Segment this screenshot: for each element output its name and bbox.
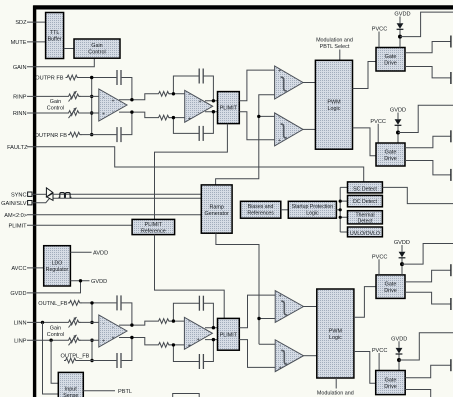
wire GVDD1 branch to right: [400, 12, 453, 36]
wire SC Detect output right: [382, 187, 453, 203]
svg-text:Generator: Generator: [205, 211, 229, 217]
svg-text:Startup Protection: Startup Protection: [292, 204, 334, 210]
wire PBTL: [83, 390, 115, 392]
svg-text:Biases and: Biases and: [248, 204, 274, 210]
svg-text:SYNC: SYNC: [11, 192, 27, 198]
wire C4b feedback: [173, 340, 213, 362]
svg-text:Modulation and: Modulation and: [317, 391, 354, 397]
FET gate bar (GD4 upper): [450, 359, 452, 371]
svg-text:+: +: [111, 336, 114, 342]
pin PLIMIT: [8, 224, 132, 230]
svg-text:Gate: Gate: [385, 54, 397, 60]
svg-text:SC Detect: SC Detect: [353, 187, 377, 193]
diode D4 GVDD: [396, 341, 403, 370]
wire OUTPL_FB row: [77, 338, 132, 361]
op-amp A1: [99, 89, 127, 121]
Gain Control block: [74, 39, 120, 58]
wire GAIN/SLV to ramp generator: [32, 198, 201, 202]
svg-text:RINN: RINN: [13, 111, 27, 117]
svg-text:AVCC: AVCC: [11, 266, 26, 272]
svg-text:AVDD: AVDD: [93, 251, 108, 257]
svg-text:+: +: [197, 337, 200, 343]
svg-text:GAIN/SLV: GAIN/SLV: [1, 201, 27, 207]
pin AVCC: [11, 266, 43, 272]
wire C2b feedback: [173, 112, 213, 134]
wire LINP to Input Sense: [51, 340, 58, 383]
svg-text:-: -: [279, 343, 281, 349]
svg-text:Drive: Drive: [384, 384, 397, 390]
wire GD4 lower output: [405, 390, 431, 397]
svg-text:-: -: [279, 93, 281, 99]
svg-text:+: +: [188, 343, 191, 349]
svg-text:LINP: LINP: [14, 338, 27, 344]
PLIMIT block (right channel): [218, 92, 240, 124]
capacitor C1a: [117, 70, 121, 85]
svg-text:PWM: PWM: [327, 100, 341, 106]
PWM Logic block (left channel): [317, 289, 354, 378]
wire label to PWM logic: [339, 50, 341, 61]
wire GD2 lower output: [405, 161, 450, 175]
svg-text:PLIMIT: PLIMIT: [220, 332, 238, 338]
svg-text:PVCC: PVCC: [372, 254, 388, 260]
variable resistor LINP: [67, 335, 80, 346]
resistor R4b: [157, 343, 171, 348]
Ramp Generator block: [201, 185, 232, 233]
wire GD2 upper output: [405, 136, 450, 147]
svg-text:Ramp: Ramp: [210, 204, 224, 210]
wire GD3 upper output: [405, 270, 450, 282]
svg-text:Thermal: Thermal: [355, 212, 374, 218]
junction dot GVDD4: [397, 358, 401, 362]
svg-text:+: +: [102, 339, 105, 345]
svg-text:GVDD: GVDD: [91, 279, 107, 285]
wire RINP to op-amp: [79, 95, 100, 97]
svg-text:Reference: Reference: [141, 229, 166, 235]
op-amp A2: [185, 90, 213, 122]
UVLO/OVLO block: [348, 227, 383, 237]
wire GD1 upper output: [405, 42, 450, 53]
pin GAIN: [13, 58, 94, 71]
svg-text:Sense: Sense: [63, 393, 78, 397]
junction dot GVDD1: [398, 35, 402, 39]
svg-text:+: +: [278, 138, 281, 144]
pin LINN: [14, 321, 67, 327]
resistor OUTPL_FB: [64, 358, 77, 363]
FET gate bar (GD1 upper): [450, 36, 452, 48]
wire PVCC2: [377, 124, 379, 143]
Gate Drive 1 block: [376, 48, 405, 72]
svg-text:Gate: Gate: [385, 377, 397, 383]
PLIMIT block (left channel): [218, 318, 240, 350]
wire PVCC1: [378, 32, 380, 48]
detect bus vertical: [340, 187, 347, 232]
svg-text:-: -: [103, 321, 105, 327]
wire LINN to Input Sense: [43, 322, 59, 394]
Gate Drive 2 block: [376, 143, 405, 166]
svg-text:Detect: Detect: [358, 218, 374, 224]
wire PVCC4: [378, 353, 380, 371]
svg-text:+: +: [279, 366, 282, 372]
op-amp A4: [184, 317, 212, 349]
wire A3 lower output: [119, 338, 157, 345]
wire A1 lower output: [119, 112, 157, 118]
svg-text:GVDD: GVDD: [10, 291, 26, 297]
svg-text:Control: Control: [88, 50, 105, 56]
svg-text:Modulation and: Modulation and: [316, 38, 353, 44]
svg-text:Control: Control: [47, 106, 64, 112]
op-amp A3: [99, 315, 127, 347]
svg-text:Regulator: Regulator: [46, 267, 69, 273]
wire PLIMIT2 to comparator CMP3: [239, 295, 276, 328]
junction dot GVDD2: [396, 131, 400, 135]
wire PLIMIT Reference to PLIMIT2: [155, 235, 225, 319]
Gate Drive 4 block: [376, 371, 406, 395]
svg-text:AM<2:0>: AM<2:0>: [4, 213, 27, 219]
capacitor C1b: [117, 127, 121, 142]
TTL Buffer U1: [46, 13, 64, 59]
svg-text:-: -: [199, 326, 201, 332]
wire PWM2 label: [335, 378, 337, 389]
svg-text:Buffer: Buffer: [47, 37, 61, 43]
junction dot LINP branch: [49, 339, 52, 342]
junction dot ramp comp3: [257, 317, 260, 320]
PLIMIT Reference block: [132, 219, 175, 234]
svg-text:PLIMIT: PLIMIT: [220, 106, 238, 112]
wire PVCC3: [378, 259, 380, 275]
FET gate bar (GD2 upper): [450, 130, 452, 142]
wire AVDD output: [70, 251, 91, 253]
svg-text:Logic: Logic: [328, 106, 341, 112]
wire GVDD3 branch to right: [402, 244, 453, 265]
junction dot ramp comp2: [257, 115, 260, 118]
svg-text:PWM: PWM: [329, 328, 343, 334]
wire PWM2 to Gate Drive 4: [354, 352, 376, 384]
FET gate bar (GD3 upper): [450, 264, 452, 276]
pin GVDD: [10, 281, 80, 297]
wire R2a to A2: [169, 93, 186, 95]
svg-text:-: -: [103, 95, 105, 101]
wire startup logic to detect bus: [336, 209, 340, 211]
variable resistor LINN: [67, 317, 80, 328]
wire RINN to op-amp: [79, 112, 100, 114]
wire biases to startup logic: [281, 209, 289, 211]
wire GVDD4 branch to right: [399, 333, 453, 360]
Biases and References block: [241, 201, 281, 218]
chip outline left border: [33, 6, 36, 397]
svg-text:Drive: Drive: [384, 288, 397, 294]
svg-text:OUTNL_FB: OUTNL_FB: [38, 301, 67, 307]
diode D1 GVDD: [397, 17, 404, 48]
junction dots detect bus: [339, 200, 342, 219]
partial block at bottom edge: [173, 394, 200, 397]
junction dot LINN branch: [41, 321, 44, 324]
diode D3 GVDD: [399, 245, 406, 275]
wire A1 upper output: [119, 94, 157, 100]
svg-text:+: +: [198, 99, 201, 105]
capacitor C4a: [199, 296, 203, 311]
svg-text:+: +: [111, 99, 114, 105]
chip outline top border: [33, 5, 453, 9]
capacitor C2a: [199, 69, 203, 84]
junction dot R4b node: [172, 343, 175, 346]
svg-text:+: +: [279, 293, 282, 299]
svg-text:-: -: [279, 115, 281, 121]
square wave symbol: [59, 193, 72, 198]
svg-text:RINP: RINP: [13, 95, 27, 101]
wire LINP to op-amp: [79, 339, 100, 341]
svg-text:GAIN: GAIN: [13, 65, 27, 71]
svg-text:UVLO/OVLO: UVLO/OVLO: [350, 231, 380, 237]
wire PWM to Gate Drive 1: [353, 62, 377, 89]
svg-text:Gain: Gain: [50, 326, 61, 332]
svg-text:-: -: [189, 92, 191, 98]
pin AM<2:0>: [4, 213, 201, 219]
wire PLIMIT1 to comparator C2: [239, 112, 275, 140]
junction dots A2 outputs: [212, 99, 215, 113]
svg-text:Control: Control: [47, 332, 64, 338]
svg-text:Gate: Gate: [385, 282, 397, 288]
wire GVDD output: [70, 280, 89, 282]
Input Sense block: [58, 372, 83, 397]
svg-text:-: -: [188, 319, 190, 325]
FET gate bar (GD3 lower): [450, 298, 452, 310]
wire C4a feedback: [173, 303, 213, 328]
pin RINP: [13, 95, 67, 101]
svg-text:+: +: [188, 116, 191, 122]
svg-text:-: -: [112, 109, 114, 115]
Gate Drive 3 block: [376, 275, 405, 299]
svg-text:References: References: [247, 211, 274, 217]
comparator CMP1: [275, 66, 303, 99]
svg-text:Drive: Drive: [384, 156, 397, 162]
wire OUTPNR FB row: [81, 112, 132, 135]
wire A2 outputs to PLIMIT: [205, 101, 218, 112]
label Gain Control (left channel): [47, 326, 64, 339]
junction dots A4 outputs: [212, 326, 215, 341]
comparator CMP2: [275, 113, 303, 146]
FET gate bar (GD2 lower): [450, 169, 452, 181]
svg-text:PLIMIT: PLIMIT: [8, 224, 27, 230]
wire A4 outputs to PLIMIT2: [205, 328, 218, 340]
wire C2a feedback: [173, 76, 213, 101]
svg-text:Gain: Gain: [50, 99, 61, 105]
svg-text:OUTPR FB: OUTPR FB: [35, 76, 64, 82]
wire CMP1 to PWM logic: [303, 82, 315, 84]
node column A vertical: [91, 78, 93, 135]
svg-text:Logic: Logic: [306, 211, 319, 217]
pin MUTE: [11, 40, 46, 46]
svg-text:OUTPNR FB: OUTPNR FB: [35, 133, 68, 139]
comparator CMP4: [275, 340, 303, 372]
wire TTL Buffer to Gain Control: [64, 48, 74, 50]
junction dot R4a node: [172, 319, 175, 322]
wire OUTPR FB row: [79, 78, 132, 100]
svg-text:DC Detect: DC Detect: [353, 199, 377, 205]
wire GD3 lower output: [405, 292, 450, 304]
wire OUTNL_FB row: [81, 303, 132, 325]
svg-text:FAULTZ: FAULTZ: [7, 145, 28, 151]
junction dots node column B: [90, 301, 93, 362]
svg-text:Input: Input: [65, 386, 77, 392]
capacitor C3a: [117, 295, 121, 310]
pin SYNC: [11, 192, 46, 198]
wire ramp generator bottom to comparators: [216, 233, 276, 344]
svg-text:TTL: TTL: [50, 30, 60, 36]
svg-text:-: -: [198, 110, 200, 116]
wire R4a to A4: [169, 320, 186, 322]
wire CMP2 to PWM logic: [303, 128, 315, 130]
LDO Regulator block: [44, 246, 71, 286]
svg-text:LINN: LINN: [14, 321, 27, 327]
Startup Protection Logic block: [288, 201, 336, 218]
resistor R2b: [157, 115, 171, 120]
wire SYNC to ramp generator: [53, 193, 201, 195]
junction dot R2b node: [172, 116, 175, 119]
junction dot A3 upper output: [130, 323, 133, 326]
variable resistor RINP: [67, 91, 80, 102]
pin FAULTZ: [7, 145, 28, 151]
svg-text:+: +: [278, 69, 281, 75]
junction dot GVDD3: [400, 262, 404, 266]
junction dot R2a node: [172, 92, 175, 95]
resistor OUTNL_FB: [68, 301, 81, 306]
node column B verticals: [91, 303, 93, 361]
PWM Logic block (right channel): [315, 60, 352, 149]
variable resistor RINN: [67, 108, 80, 119]
svg-text:PLIMIT: PLIMIT: [145, 222, 163, 228]
junction dots node column A: [90, 76, 93, 137]
wire ramp to comp4: [259, 343, 276, 345]
wire PLIMIT1 bottom to PLIMIT Reference: [155, 124, 228, 220]
svg-text:Gate: Gate: [385, 149, 397, 155]
svg-text:LDO: LDO: [52, 260, 63, 266]
diode D2 GVDD: [395, 113, 402, 144]
comparator CMP3: [275, 291, 303, 323]
wire ramp to comparators (upper): [216, 95, 275, 186]
junction dot A1 upper output: [130, 98, 133, 101]
resistor OUTPNR FB: [68, 132, 81, 137]
svg-text:PBTL: PBTL: [118, 389, 132, 395]
wire GD1 lower output: [405, 67, 450, 78]
svg-text:-: -: [112, 324, 114, 330]
Thermal Detect block: [348, 211, 383, 225]
svg-text:+: +: [102, 112, 105, 118]
wire GVDD2 branch to right: [398, 105, 453, 132]
capacitor C2b: [199, 126, 203, 141]
pin GAIN/SLV: [1, 201, 32, 207]
wire CMP3 to PWM2: [304, 306, 317, 308]
wire A3 upper output: [119, 321, 157, 325]
resistor R4a: [157, 319, 171, 324]
svg-text:Drive: Drive: [384, 61, 397, 67]
wire PWM2 to Gate Drive 3: [354, 287, 376, 318]
svg-text:Gain: Gain: [91, 43, 102, 49]
wire R2b to A2: [169, 117, 186, 119]
pin SDZ: [15, 20, 45, 26]
svg-text:Logic: Logic: [329, 335, 342, 341]
wire LINN to op-amp: [79, 321, 100, 323]
SYNC buffer (bidirectional): [46, 188, 53, 201]
junction dot A3 lower output: [130, 336, 133, 339]
wire R4b to A4: [169, 344, 186, 346]
wire PLIMIT1 to comparator C1: [239, 70, 275, 101]
wire PLIMIT2 to comparator CMP4: [239, 340, 276, 368]
wire CMP4 to PWM2: [304, 355, 317, 357]
pin LINP: [14, 338, 67, 344]
SC Detect block: [348, 182, 383, 193]
resistor OUTPR FB: [66, 75, 79, 80]
pin RINN: [13, 111, 67, 117]
svg-text:SDZ: SDZ: [15, 20, 27, 26]
wire FAULTZ net to SC Detect: [27, 147, 364, 182]
svg-text:GVDD: GVDD: [394, 12, 410, 18]
capacitor C4b: [199, 354, 203, 369]
capacitor C3b: [117, 353, 121, 368]
junction dot A1 lower output: [130, 110, 133, 113]
DC Detect block: [348, 195, 383, 206]
wire GD4 upper output: [405, 365, 450, 378]
svg-text:PBTL Select: PBTL Select: [320, 44, 350, 50]
svg-text:MUTE: MUTE: [11, 40, 27, 46]
label Gain Control (input attenuator): [47, 99, 64, 112]
resistor R2a: [157, 91, 171, 96]
junction dot GVDD LDO: [79, 279, 82, 282]
wire PWM to Gate Drive 2: [353, 128, 377, 156]
FET gate bar (GD1 lower): [450, 72, 452, 84]
label Modulation and PBTL Select (top): [316, 38, 353, 50]
svg-text:-: -: [279, 317, 281, 323]
